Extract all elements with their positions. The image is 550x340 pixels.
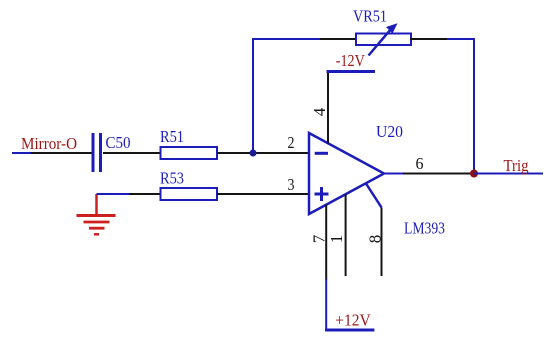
pin 8 wire black xyxy=(381,208,383,277)
op-amp U20 triangle xyxy=(309,133,384,214)
wire feedback node up and across blue xyxy=(253,39,320,152)
svg-text:-12V: -12V xyxy=(336,51,366,70)
svg-text:U20: U20 xyxy=(376,122,403,141)
resistor R51 xyxy=(161,147,218,159)
wire input to C50 xyxy=(31,152,92,154)
wire Trig output blue xyxy=(474,173,543,175)
potentiometer VR51 wiper arrow xyxy=(369,23,398,55)
junction node at inverting input xyxy=(250,150,257,157)
potentiometer VR51 body xyxy=(356,34,411,46)
svg-text:VR51: VR51 xyxy=(353,7,387,26)
junction dot at Trig xyxy=(470,170,478,178)
svg-text:C50: C50 xyxy=(106,133,131,152)
pin 4 wire xyxy=(327,72,329,144)
svg-text:Trig: Trig xyxy=(504,156,529,175)
pin 7 wire black xyxy=(325,205,327,281)
wire C50 to R51 xyxy=(103,152,160,154)
wire feedback right corner blue xyxy=(447,39,474,174)
pin 8 wire diagonal blue xyxy=(366,184,382,208)
svg-text:2: 2 xyxy=(288,133,295,152)
svg-text:R53: R53 xyxy=(160,169,184,188)
svg-text:1: 1 xyxy=(327,235,346,244)
capacitor C50 xyxy=(93,133,101,172)
pin 7 wire blue to +12V xyxy=(325,279,327,329)
pin 1 wire xyxy=(345,195,347,277)
wire output stub blue xyxy=(384,173,403,175)
op-amp minus input symbol xyxy=(315,152,328,155)
resistor R53 xyxy=(161,188,218,200)
wire input stub blue xyxy=(12,152,31,154)
ground xyxy=(77,194,116,234)
power rail +12V bar xyxy=(325,329,374,332)
power rail -12V bar xyxy=(327,70,376,73)
svg-text:3: 3 xyxy=(288,175,295,194)
wire R51 to pin2 xyxy=(217,152,309,154)
wire ground to R53 xyxy=(129,193,160,195)
svg-text:6: 6 xyxy=(416,154,424,173)
wire R53 to pin3 xyxy=(217,193,309,195)
op-amp plus input symbol xyxy=(315,187,329,201)
svg-text:7: 7 xyxy=(309,234,328,243)
wire ground stub blue xyxy=(97,193,130,195)
svg-text:+12V: +12V xyxy=(335,311,371,330)
svg-text:4: 4 xyxy=(310,107,329,116)
svg-text:8: 8 xyxy=(366,235,385,244)
wire output black xyxy=(403,173,471,175)
svg-text:R51: R51 xyxy=(160,127,184,146)
svg-text:LM393: LM393 xyxy=(404,219,445,238)
wire feedback to VR51 xyxy=(320,38,356,40)
svg-text:Mirror-O: Mirror-O xyxy=(21,134,77,153)
wire VR51 right black xyxy=(410,38,447,40)
